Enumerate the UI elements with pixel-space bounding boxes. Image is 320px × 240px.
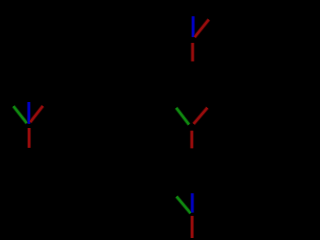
node B: carbon junction middle-left — [13, 102, 43, 148]
halo: bond B-Br vertical — [27, 128, 31, 148]
node D: carbon junction bottom-right — [177, 193, 193, 238]
halo: bond C-Br vertical — [190, 131, 194, 149]
wire: bond A to Br (dark red, vertical down) — [191, 43, 193, 62]
wire: bond C to Br (dark red, diagonal up-right) — [194, 108, 208, 124]
node C: carbon junction middle-right — [176, 108, 207, 149]
halo: bond D-Cl — [177, 197, 191, 214]
halo: bond B-Cl — [13, 106, 26, 123]
wire: bond D to Br (dark red, vertical down) — [191, 216, 193, 239]
wire: bond D to N (blue, vertical) — [191, 193, 193, 212]
halo: bond A-Br diagonal — [195, 20, 209, 38]
wire: bond B to Cl (green, diagonal up-left) — [13, 106, 26, 123]
wire: bond C to Cl (green, diagonal up-left) — [176, 108, 189, 125]
wire: bond B to Br (dark red, diagonal up-right) — [30, 106, 43, 122]
node A: carbon junction top-right — [193, 16, 209, 61]
halo: bond D-N — [190, 193, 194, 212]
halo: bond B-Br diagonal — [30, 106, 43, 122]
wire: bond A to N (blue, vertical) — [192, 16, 194, 37]
halo: bond B-N — [27, 102, 31, 124]
wire: bond B to N (blue, vertical) — [28, 102, 30, 124]
halo: bond A-Br vertical — [191, 43, 195, 62]
wire: bond C to Br (dark red, vertical down) — [191, 131, 193, 149]
halo: bond C-Br diagonal — [194, 108, 208, 124]
halo: bond A-N — [191, 16, 195, 37]
halo: bond D-Br vertical — [190, 216, 194, 239]
wire: bond A to Br (dark red, diagonal up-right) — [195, 20, 209, 38]
halo: bond C-Cl — [176, 108, 189, 125]
wire: bond B to Br (dark red, vertical down) — [28, 128, 30, 148]
wire: bond D to Cl (green, diagonal up-left) — [177, 197, 191, 214]
soft halo underlay for all bonds — [13, 16, 208, 238]
